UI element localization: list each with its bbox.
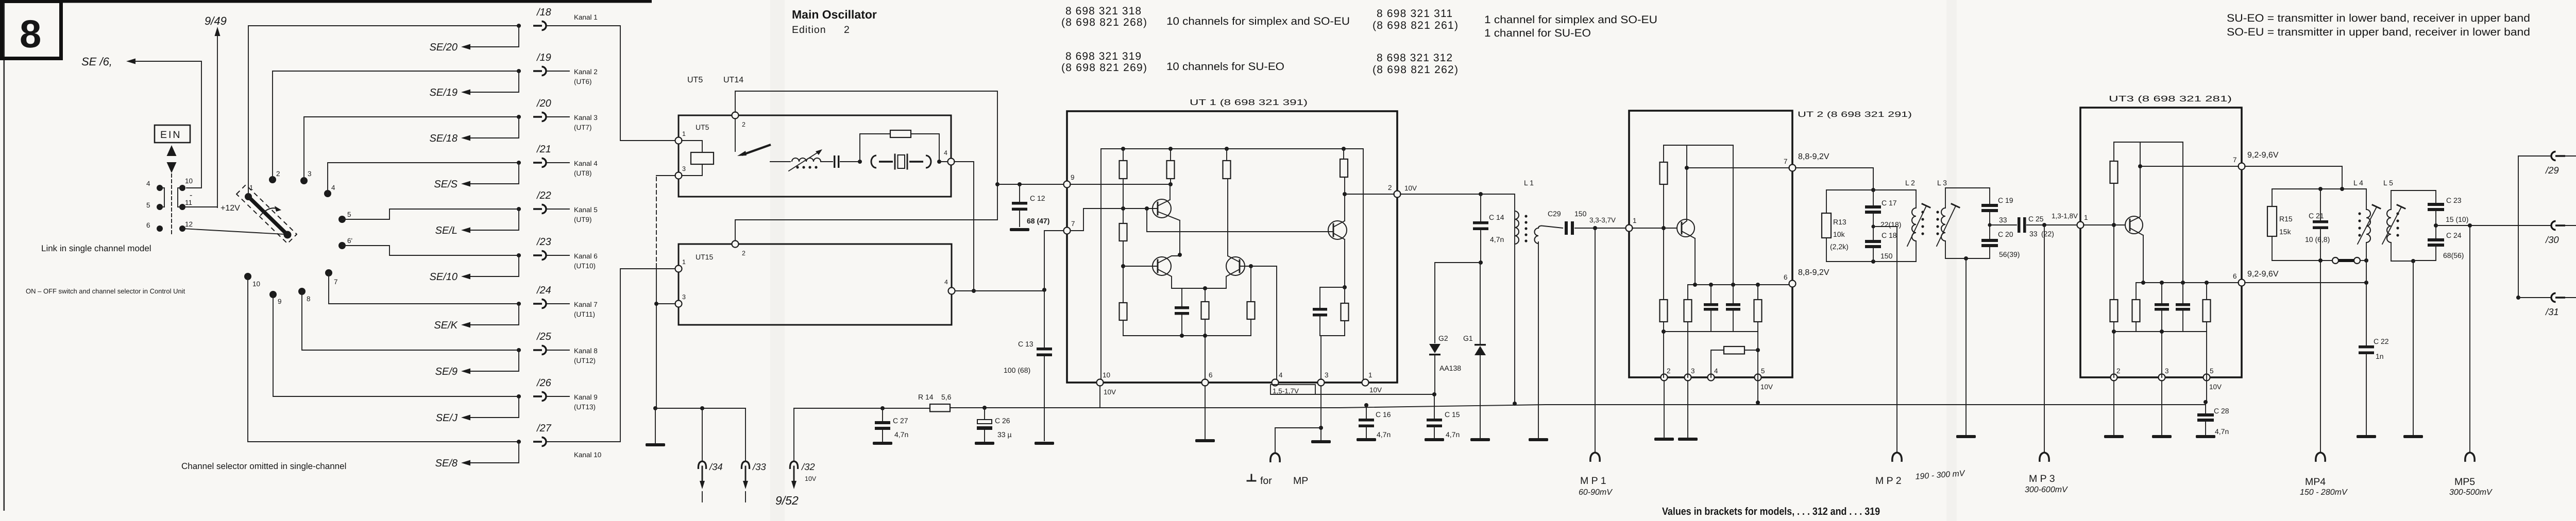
rotary contact 4 (324, 190, 331, 197)
resistor R14 (930, 404, 950, 412)
wire UT3 pin 3 ground (2161, 380, 2162, 435)
svg-text:4: 4 (1279, 371, 1283, 379)
svg-text:5: 5 (2210, 367, 2214, 375)
svg-text:UT 2 (8 698 321 291): UT 2 (8 698 321 291) (1798, 110, 1912, 119)
svg-text:L 4: L 4 (2353, 179, 2363, 187)
node junction channel 4 (517, 161, 521, 165)
wire SE/19 return with arrow (463, 71, 519, 92)
wire channel 10 from selector contact 10 (248, 276, 520, 442)
node junction channel 10 (517, 440, 521, 444)
pin 1 UT15 (675, 266, 682, 272)
svg-text:2: 2 (742, 250, 745, 257)
svg-text:8 698 321 319: 8 698 321 319 (1065, 50, 1141, 62)
svg-text:for: for (1260, 475, 1272, 487)
svg-text:C 13: C 13 (1018, 340, 1033, 348)
svg-text:C 27: C 27 (893, 416, 908, 425)
UT2 internal top rail (1664, 145, 1733, 146)
capacitor C19 (1989, 188, 1990, 204)
svg-text:7: 7 (2233, 156, 2237, 164)
svg-text:15 (10): 15 (10) (2446, 215, 2468, 223)
svg-text:10V: 10V (1404, 184, 1417, 192)
svg-text:4: 4 (146, 180, 150, 187)
svg-text:G1: G1 (1463, 334, 1473, 342)
svg-text:4: 4 (944, 149, 947, 157)
capacitor C23 (2428, 203, 2444, 206)
svg-text:SE/8: SE/8 (435, 458, 457, 469)
svg-text:1: 1 (682, 130, 686, 137)
pin 6 UT1 (1202, 379, 1209, 386)
tank top rail (1826, 189, 1916, 190)
resistor R-a (1123, 149, 1124, 223)
emitter resistor R6 (1205, 288, 1206, 379)
svg-text:UT 1 (8 698 321 391): UT 1 (8 698 321 391) (1190, 98, 1308, 107)
resistor R-c (1120, 303, 1127, 320)
svg-text:SE /6,: SE /6, (81, 55, 112, 68)
svg-text:MP5: MP5 (2454, 476, 2475, 488)
svg-text:10: 10 (185, 177, 193, 185)
pin 1 UT1 (1362, 379, 1369, 386)
svg-text:/31: /31 (2545, 306, 2559, 317)
svg-text:10 (6,8): 10 (6,8) (2305, 235, 2330, 244)
svg-text:10V: 10V (1760, 383, 1773, 391)
svg-text:5,6: 5,6 (941, 393, 952, 401)
svg-text:10: 10 (1103, 371, 1110, 379)
svg-text:UT15: UT15 (696, 253, 713, 261)
internal capacitor (1181, 288, 1182, 336)
svg-text:/19: /19 (536, 52, 551, 63)
svg-text:SE/J: SE/J (436, 412, 458, 424)
connector Kanal 3 (533, 113, 546, 121)
svg-text:10V: 10V (2209, 383, 2222, 391)
svg-text:C 26: C 26 (995, 416, 1010, 425)
capacitor C16 (1366, 405, 1367, 419)
connector Kanal 5 (533, 205, 546, 214)
node ground bus left (653, 406, 657, 410)
wire channel 7 from selector contact 7 (329, 273, 520, 304)
node diode tie (1479, 260, 1483, 265)
node MP1 (1593, 226, 1597, 230)
capacitor C21 (2320, 189, 2321, 220)
capacitor C22 (2366, 260, 2367, 345)
node junction channel 3 (517, 115, 521, 119)
svg-text:33 µ: 33 µ (997, 430, 1012, 439)
wire contact11 to +12V (182, 206, 217, 207)
svg-text:4: 4 (944, 279, 948, 286)
capacitor C12 (1019, 184, 1020, 202)
pin 4 UT2 (1708, 374, 1715, 381)
svg-text:1: 1 (682, 258, 686, 266)
svg-text:(8 698 821 261): (8 698 821 261) (1372, 20, 1458, 31)
svg-text:(8 698 821 269): (8 698 821 269) (1061, 62, 1147, 74)
svg-text:(8 698 821 262): (8 698 821 262) (1372, 64, 1458, 76)
svg-text:8: 8 (307, 295, 311, 303)
svg-text:MP4: MP4 (2305, 476, 2326, 488)
svg-text:1n: 1n (2376, 352, 2384, 360)
svg-text:C 28: C 28 (2214, 407, 2229, 415)
rotary contact 6 (338, 242, 346, 249)
node junction channel 1 (517, 24, 521, 28)
svg-text:SE/9: SE/9 (435, 366, 457, 377)
pin 4 UT5 (948, 159, 955, 165)
wire pin 3 to ground and MP (1320, 386, 1321, 441)
wire C25 to UT3 pin 1 (2027, 224, 2077, 225)
output tank top rail (2272, 188, 2366, 189)
svg-text:Values in brackets for models,: Values in brackets for models, . . . 312… (1662, 506, 1880, 517)
switch contact 6 (157, 225, 163, 232)
wire Kanal 2 stub (547, 71, 569, 72)
wire UT5 pin 4 down (954, 162, 974, 291)
svg-text:22(18): 22(18) (1880, 220, 1901, 229)
capacitor C13 (1044, 290, 1045, 348)
pin 6 UT3 (2239, 280, 2245, 286)
capacitor C25 (2018, 217, 2021, 233)
node C19/C20 tap (1988, 223, 1991, 227)
node tank top (1871, 188, 1875, 192)
svg-text:10: 10 (252, 280, 260, 288)
svg-text:ON – OFF switch and channel se: ON – OFF switch and channel selector in … (26, 287, 185, 295)
svg-text:UT5: UT5 (696, 123, 709, 131)
wire Kanal 1 to UT5 pin 1 (547, 26, 675, 141)
svg-text:2: 2 (276, 170, 280, 178)
wire pin 10 to supply bus (1099, 386, 1100, 408)
svg-text:R13: R13 (1833, 218, 1846, 226)
node UT5/UT15 pin4 join (972, 289, 976, 293)
wire Kanal 8 stub (547, 350, 569, 351)
svg-text:/20: /20 (536, 98, 551, 109)
wire UT5 pin2 / UT15 pin2 loop (735, 91, 997, 240)
svg-text:Kanal 10: Kanal 10 (574, 451, 601, 459)
node /34 branch (700, 406, 704, 410)
transistor T2 (1153, 257, 1171, 275)
connector /29 (2518, 155, 2550, 157)
svg-text:7: 7 (1784, 158, 1788, 165)
svg-text:4,7n: 4,7n (1490, 235, 1504, 244)
svg-text:(UT12): (UT12) (574, 357, 596, 364)
svg-text:Kanal 8: Kanal 8 (574, 347, 598, 355)
svg-text:8 698 321 312: 8 698 321 312 (1377, 52, 1452, 64)
capacitor C15 (1434, 394, 1435, 419)
svg-text:2: 2 (844, 24, 850, 36)
wire channel 5 from selector contact 5 (342, 209, 520, 219)
node C14 (1479, 192, 1483, 196)
connector Kanal 4 (533, 159, 546, 167)
connector /30 (2551, 221, 2565, 230)
node C12 (1018, 182, 1022, 186)
svg-text:C 12: C 12 (1030, 194, 1045, 202)
wire contact12 to rotor (182, 229, 284, 234)
UT3 base line (2083, 224, 2125, 225)
svg-text:3: 3 (2165, 367, 2169, 375)
connector /34 (702, 408, 703, 461)
svg-text:/22: /22 (536, 190, 551, 201)
wire to MP tie point (1275, 428, 1321, 452)
svg-text:4,7n: 4,7n (2215, 427, 2229, 436)
svg-text:2: 2 (1388, 184, 1392, 192)
pin 5 UT3 (2204, 374, 2210, 381)
svg-text:R 14: R 14 (918, 393, 934, 401)
wire channel 3 from selector contact 3 (304, 117, 520, 181)
svg-text:300-500mV: 300-500mV (2449, 488, 2493, 497)
capacitor C26 electrolytic (984, 408, 985, 420)
svg-text:AA138: AA138 (1439, 364, 1461, 372)
svg-text:C 15: C 15 (1445, 410, 1460, 419)
svg-text:33: 33 (2029, 230, 2038, 238)
crystal resonator (871, 155, 876, 168)
svg-text:150 - 280mV: 150 - 280mV (2300, 488, 2348, 497)
resistor R7 (1250, 266, 1251, 336)
svg-text:L 1: L 1 (1524, 179, 1534, 187)
UT3 pin 7 line (2140, 166, 2239, 167)
pin 3 UT3 (2159, 374, 2165, 381)
wire SE/J return with arrow (463, 396, 519, 418)
svg-text:-: - (190, 191, 192, 200)
svg-text:10 channels for simplex and SO: 10 channels for simplex and SO-EU (1166, 15, 1350, 27)
label box 1,5-1,7V under pin 4 (1270, 385, 1315, 394)
svg-text:C 20: C 20 (1998, 230, 2013, 238)
rotary contact 2 (269, 176, 276, 183)
svg-text:100 (68): 100 (68) (1004, 366, 1030, 374)
connector Kanal 2 (533, 67, 546, 76)
rotary contact 10 (244, 273, 251, 280)
svg-text:150: 150 (1574, 210, 1587, 218)
svg-text:(2,2k): (2,2k) (1830, 242, 1849, 251)
svg-text:8 698 321 311: 8 698 321 311 (1377, 8, 1452, 20)
svg-text:1 channel for SU-EO: 1 channel for SU-EO (1484, 27, 1591, 39)
wire branch up to UT1 pin 7 (1044, 231, 1063, 290)
svg-text:5: 5 (1761, 367, 1765, 375)
svg-text:EIN: EIN (160, 129, 182, 141)
svg-text:Kanal 9: Kanal 9 (574, 393, 598, 401)
svg-text:4: 4 (1714, 367, 1718, 375)
transistor T4 (1328, 221, 1347, 239)
node L4 bottom (2364, 258, 2368, 263)
transistor T5 (1677, 219, 1694, 237)
switch contact 11 (179, 204, 185, 210)
rotary contact 8 (298, 288, 306, 295)
pin 1 UT5 (675, 137, 682, 144)
capacitor C27 (882, 408, 883, 421)
wire Kanal 3 stub (547, 116, 569, 117)
page top border (0, 0, 652, 3)
wire Kanal 4 stub (547, 162, 569, 163)
svg-text:M P 2: M P 2 (1875, 475, 1902, 487)
svg-text:(UT13): (UT13) (574, 403, 596, 411)
svg-text:/21: /21 (536, 144, 551, 155)
node crystal output (937, 160, 941, 164)
node junction channel 7 (517, 302, 521, 306)
wire pin 6 to ground (1205, 386, 1206, 439)
svg-text:(UT11): (UT11) (574, 310, 595, 318)
svg-text:UT14: UT14 (723, 76, 743, 84)
svg-text:UT3 (8 698 321 281): UT3 (8 698 321 281) (2109, 95, 2232, 103)
wire UT2 pin 3 ground (1687, 380, 1688, 437)
svg-text:8 698 321 318: 8 698 321 318 (1065, 5, 1141, 17)
wire UT2 pin7 to tank (1795, 168, 1873, 190)
UT2 bottom rail (1664, 331, 1758, 332)
switch contact 12 (179, 225, 185, 232)
switch contact inside UT5 (735, 118, 736, 151)
svg-text:68(56): 68(56) (2443, 251, 2464, 259)
svg-text:Kanal 6: Kanal 6 (574, 252, 598, 260)
svg-text:C 14: C 14 (1489, 213, 1504, 221)
svg-text:M P 3: M P 3 (2029, 473, 2055, 484)
svg-text:L 5: L 5 (2383, 179, 2393, 187)
svg-text:1: 1 (1368, 371, 1372, 379)
svg-text:Link in single channel model: Link in single channel model (41, 244, 151, 253)
svg-text:C 22: C 22 (2374, 337, 2389, 345)
wire UT3 pin7 to output tank (2245, 166, 2342, 189)
svg-text:MP: MP (1293, 475, 1308, 487)
pin 9 UT1 (1064, 181, 1071, 188)
svg-text:7: 7 (334, 278, 338, 286)
node T4 collector to pin 2 (1343, 192, 1347, 196)
EIN on-off switch (155, 125, 190, 234)
node junction channel 8 (517, 348, 521, 352)
internal bottom rail (1123, 335, 1251, 336)
svg-text:4,7n: 4,7n (894, 430, 908, 439)
UT3 right resistor (2206, 283, 2207, 402)
wire UT15 pin 4 to UT1 pin 7 branch (955, 290, 1044, 291)
svg-text:4: 4 (331, 184, 335, 192)
pin 3 UT1 (1318, 379, 1325, 386)
svg-text:/23: /23 (536, 236, 551, 248)
svg-text:/32: /32 (801, 461, 815, 472)
connector Kanal 1 (533, 22, 546, 30)
output tank bottom rail (2272, 260, 2332, 261)
svg-text:SE/18: SE/18 (430, 133, 457, 144)
resistor R-b (1120, 223, 1127, 241)
pin 2 UT1 (1394, 191, 1401, 198)
svg-text:Kanal 2: Kanal 2 (574, 68, 598, 76)
svg-text:Channel selector omitted in si: Channel selector omitted in single-chann… (181, 461, 346, 471)
svg-text:Kanal 3: Kanal 3 (574, 114, 598, 121)
resistor R9 (1344, 287, 1345, 336)
svg-text:56(39): 56(39) (1999, 250, 2020, 258)
pin 6 UT2 (1789, 281, 1796, 287)
node crystal filter input (858, 160, 862, 164)
wire UT3 pin6 to L4 (2245, 282, 2366, 283)
svg-text:/34: /34 (708, 461, 723, 472)
diode G2 AA138 (1435, 263, 1481, 343)
UT3 internal capacitor b (2182, 142, 2183, 332)
node MP4 (2320, 260, 2321, 451)
node bus end C28 (2204, 400, 2208, 404)
node MP5 (2468, 223, 2472, 228)
connector Kanal 10 (533, 438, 546, 446)
wire UT5 pin 3 to common (656, 175, 675, 176)
resistor R15 (2272, 189, 2273, 260)
feedback resistor over crystal (860, 134, 939, 162)
svg-text:SE/S: SE/S (434, 179, 457, 190)
svg-text:/25: /25 (536, 331, 552, 342)
capacitor C24 (2428, 238, 2444, 241)
tank bottom rail (1826, 261, 1916, 262)
wire SE/8 return with arrow (463, 442, 519, 463)
UT2 base line (1632, 228, 1676, 229)
pin 5 UT2 (1755, 374, 1761, 381)
wire L5 bottom to ground (2391, 260, 2413, 262)
wire channel 4 from selector contact 4 (328, 163, 520, 194)
dashed link wire (656, 177, 657, 264)
svg-text:C 24: C 24 (2446, 231, 2462, 239)
UT2 right resistor (1757, 285, 1758, 403)
pin 2 UT2 (1661, 374, 1668, 381)
svg-text:8,8-9,2V: 8,8-9,2V (1798, 152, 1829, 161)
svg-text:L 3: L 3 (1937, 179, 1947, 187)
node output (2434, 223, 2438, 228)
svg-text:(8 698 821 268): (8 698 821 268) (1061, 16, 1147, 28)
svg-text:C29: C29 (1548, 210, 1561, 218)
svg-text:C 17: C 17 (1882, 199, 1897, 207)
svg-text:10V: 10V (1369, 386, 1382, 394)
UT3 left divider chain (2113, 142, 2114, 377)
svg-text:11: 11 (185, 199, 192, 206)
svg-text:5: 5 (146, 201, 150, 209)
pin 3 UT5 (675, 172, 682, 179)
node C26 (982, 406, 987, 410)
wire output line (2436, 225, 2551, 226)
svg-text:UT5: UT5 (687, 76, 703, 84)
capacitor C28 (2205, 402, 2206, 413)
pin 1 UT2 (1626, 225, 1633, 232)
pin 7 UT2 (1789, 165, 1796, 171)
emitter RC T4: top link (1320, 287, 1345, 288)
svg-text:C 25: C 25 (2028, 215, 2044, 223)
svg-text:4,7n: 4,7n (1377, 430, 1391, 439)
svg-text:SO-EU = transmitter in upper b: SO-EU = transmitter in upper band, recei… (2227, 26, 2530, 38)
svg-text:9,2-9,6V: 9,2-9,6V (2247, 270, 2279, 279)
wire Kanal 7 stub (547, 303, 569, 304)
rotary switch rotor (236, 185, 297, 244)
svg-text:(UT6): (UT6) (574, 78, 592, 85)
wire MP1 drop (1595, 228, 1596, 451)
node junction channel 6 (517, 253, 521, 257)
svg-text:1: 1 (249, 184, 253, 192)
wire SE/S return with arrow (463, 163, 519, 184)
svg-text:2: 2 (1667, 367, 1671, 375)
svg-text:68 (47): 68 (47) (1027, 217, 1049, 225)
pin 3 UT2 (1685, 374, 1691, 381)
svg-text:10V: 10V (805, 475, 817, 482)
wire output branch column (2518, 156, 2519, 298)
node SE/6 label and arrow (81, 55, 201, 188)
wire 10V net under pin1 (1272, 394, 1434, 395)
svg-text:/18: /18 (536, 7, 551, 18)
ground left (655, 408, 656, 443)
svg-text:10k: 10k (1833, 230, 1845, 238)
svg-text:1,3-1,8V: 1,3-1,8V (2052, 212, 2078, 220)
node 9/49 arrow (205, 14, 227, 207)
svg-text:C 19: C 19 (1998, 196, 2013, 204)
UT2 feedback resistor row (1711, 350, 1758, 377)
capacitor C18 (1873, 214, 1874, 240)
link strap (2332, 257, 2338, 264)
node T1 emitter / T2 collector (1178, 253, 1182, 257)
svg-text:Kanal 4: Kanal 4 (574, 160, 598, 167)
node C17/C18 tap to MP2 (1871, 224, 1875, 228)
adjustable inductor in UT5 (792, 158, 821, 162)
wire SE/K return with arrow (463, 304, 519, 325)
node pin2 net to UT1 pin 9 (995, 182, 999, 186)
capacitor C29 (1565, 221, 1568, 235)
L3 tank rails (1945, 188, 1990, 258)
node emitter rail (1203, 286, 1207, 290)
svg-text:Main Oscillator: Main Oscillator (792, 8, 877, 21)
svg-text:C 16: C 16 (1376, 410, 1391, 419)
wire main supply bus (794, 405, 2206, 408)
connector /33 (745, 408, 746, 461)
wire channel 8 from selector contact 8 (302, 291, 520, 350)
